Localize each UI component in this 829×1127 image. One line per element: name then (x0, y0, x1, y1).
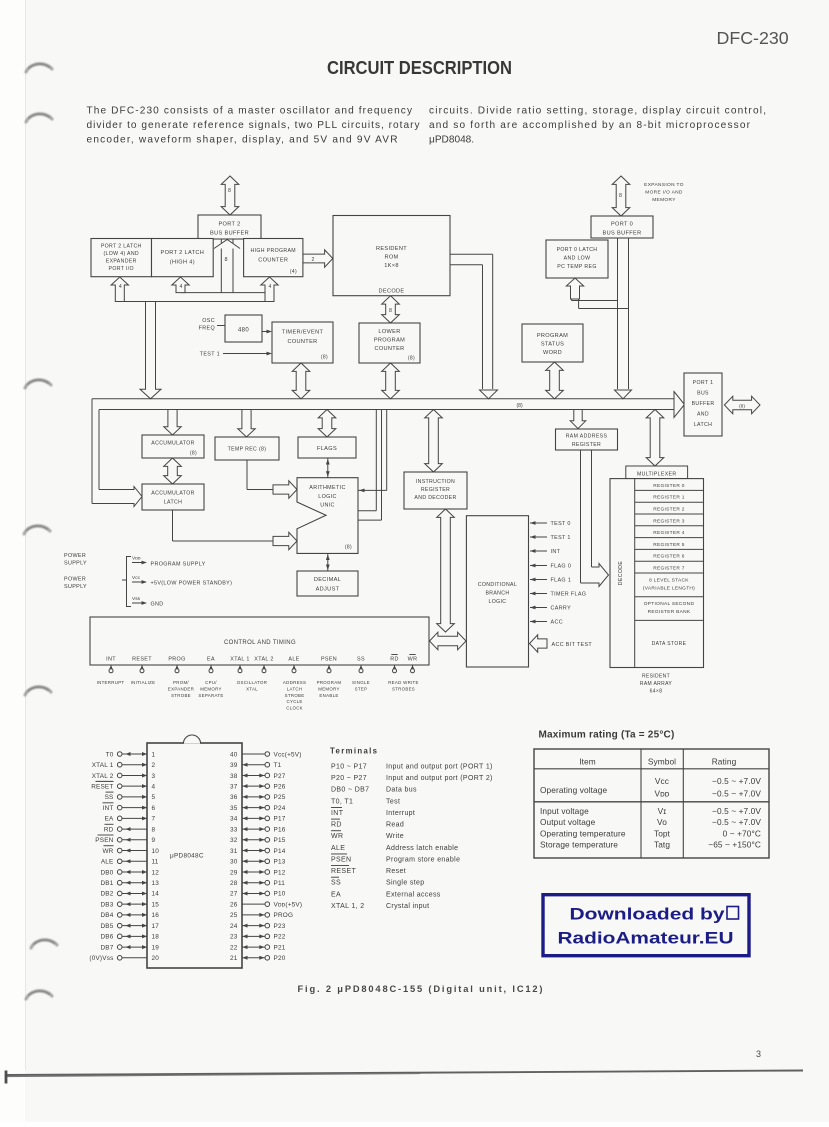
svg-text:and so forth are accomplished: and so forth are accomplished by an 8-bi… (429, 120, 751, 131)
svg-text:(0V)Vss: (0V)Vss (89, 955, 113, 962)
svg-text:P13: P13 (274, 859, 286, 866)
arrow 8 decode to lower program counter (382, 296, 400, 323)
pin 34 P17 (230, 816, 286, 823)
wire osc freq to 480 block (199, 318, 225, 332)
svg-text:P24: P24 (274, 805, 286, 812)
power supply legend (64, 553, 232, 608)
svg-text:INSTRUCTION: INSTRUCTION (416, 479, 455, 485)
pin 16 DB4 (100, 912, 159, 919)
svg-text:RD: RD (104, 826, 114, 833)
block PORT 2 LATCH LOW (91, 239, 152, 277)
svg-text:15: 15 (152, 901, 160, 908)
svg-text:EXPANSION TO: EXPANSION TO (644, 182, 684, 188)
svg-text:PROGRAM: PROGRAM (537, 333, 568, 339)
block PORT 2 BUS BUFFER (198, 215, 261, 239)
block PORT 0 LATCH (546, 240, 608, 278)
svg-text:20: 20 (152, 955, 160, 962)
arrow bus to multiplexer (646, 410, 664, 467)
svg-text:DATA STORE: DATA STORE (652, 641, 687, 647)
block ARITHMETIC LOGIC UNIT (297, 478, 358, 554)
svg-text:CLOCK: CLOCK (286, 706, 303, 711)
pin 39 T1 (230, 762, 282, 769)
wire ALU to decimal adjust (326, 553, 330, 571)
svg-text:P10: P10 (274, 891, 286, 898)
svg-text:INT: INT (551, 549, 561, 555)
svg-text:TEST 1: TEST 1 (200, 352, 220, 358)
svg-text:LATCH: LATCH (164, 500, 182, 506)
wire TEST 1 input (200, 352, 272, 358)
svg-text:P14: P14 (274, 848, 286, 855)
svg-text:21: 21 (230, 955, 238, 962)
svg-text:Operating temperature: Operating temperature (540, 828, 626, 838)
pin 26 Vᴅᴅ(+5V) (230, 901, 302, 908)
svg-text:SUPPLY: SUPPLY (64, 561, 87, 567)
block CONTROL AND TIMING (90, 617, 429, 665)
svg-text:XTAL 1, 2: XTAL 1, 2 (331, 903, 365, 910)
svg-text:9: 9 (152, 837, 156, 844)
svg-text:−65 ~ +150°C: −65 ~ +150°C (708, 840, 761, 850)
svg-text:33: 33 (230, 826, 238, 833)
block RAM ADDRESS REGISTER (556, 429, 618, 450)
svg-text:AND: AND (697, 412, 709, 418)
svg-text:PSEN: PSEN (331, 856, 351, 863)
wire accumulator latch to ALU (173, 510, 274, 541)
svg-text:0 ~ +70°C: 0 ~ +70°C (723, 828, 761, 838)
svg-text:64×8: 64×8 (650, 689, 663, 695)
pin 35 P24 (230, 805, 286, 812)
svg-text:READ WRITE: READ WRITE (388, 680, 419, 685)
svg-text:STROBE: STROBE (285, 693, 305, 698)
svg-text:ACC: ACC (551, 620, 563, 626)
svg-text:The DFC-230 consists of a mast: The DFC-230 consists of a master oscilla… (87, 106, 413, 117)
svg-text:EXPANDER: EXPANDER (168, 686, 194, 691)
terminals table (331, 764, 493, 910)
svg-text:Vcc(+5V): Vcc(+5V) (274, 751, 302, 758)
svg-text:Symbol: Symbol (648, 757, 676, 767)
svg-text:INT: INT (106, 657, 116, 663)
svg-text:MEMORY: MEMORY (200, 686, 221, 691)
svg-text:SEPARATE: SEPARATE (198, 693, 223, 698)
svg-text:Program store enable: Program store enable (386, 856, 460, 863)
svg-text:TEMP REC (8): TEMP REC (8) (228, 447, 267, 453)
svg-text:PC TEMP REG: PC TEMP REG (557, 264, 596, 270)
pin 33 P16 (230, 826, 286, 833)
pin 37 P26 (230, 783, 286, 790)
svg-text:TIMER FLAG: TIMER FLAG (551, 592, 587, 598)
svg-text:REGISTER 5: REGISTER 5 (653, 542, 685, 548)
svg-text:8: 8 (389, 308, 392, 314)
svg-text:CONTROL AND TIMING: CONTROL AND TIMING (224, 640, 296, 646)
svg-text:DB3: DB3 (100, 901, 113, 908)
pin 11 ALE (101, 859, 159, 866)
svg-text:Read: Read (386, 822, 404, 829)
svg-text:PROGRAM: PROGRAM (374, 338, 405, 344)
svg-text:P12: P12 (274, 869, 286, 876)
svg-text:LATCH: LATCH (287, 686, 303, 691)
svg-text:XTAL 1: XTAL 1 (230, 657, 249, 663)
svg-text:RESET: RESET (331, 868, 356, 875)
svg-text:INT: INT (331, 810, 344, 817)
svg-text:Single step: Single step (386, 880, 424, 887)
pin 19 DB7 (100, 944, 159, 951)
svg-text:(8): (8) (739, 404, 745, 410)
wire ALU output to bus (358, 410, 387, 521)
arrow bus into RAM address register (570, 410, 586, 429)
svg-text:SS: SS (331, 880, 341, 887)
svg-text:17: 17 (152, 923, 160, 930)
svg-text:PROGRAM: PROGRAM (317, 680, 342, 685)
svg-text:40: 40 (230, 751, 238, 758)
svg-text:Maximum rating (Ta = 25°C): Maximum rating (Ta = 25°C) (539, 730, 675, 741)
svg-text:OPTIONAL SECOND: OPTIONAL SECOND (644, 601, 695, 607)
svg-text:Input voltage: Input voltage (540, 806, 589, 816)
svg-text:REGISTER: REGISTER (421, 487, 450, 493)
block INSTRUCTION REGISTER (404, 472, 467, 509)
svg-text:RESIDENT: RESIDENT (642, 674, 670, 680)
svg-text:480: 480 (238, 328, 249, 334)
svg-text:(8): (8) (408, 356, 415, 362)
svg-text:SINGLE: SINGLE (352, 680, 370, 685)
svg-text:ADJUST: ADJUST (316, 587, 340, 593)
main data bus (92, 392, 685, 504)
svg-text:WR: WR (331, 833, 343, 840)
pin 38 P27 (230, 773, 286, 780)
svg-text:1K×8: 1K×8 (384, 263, 399, 269)
svg-text:T0, T1: T0, T1 (331, 798, 353, 805)
svg-text:DECIMAL: DECIMAL (314, 577, 341, 583)
svg-text:(VARIABLE LENGTH): (VARIABLE LENGTH) (643, 586, 695, 592)
block TEMP REG (215, 437, 279, 460)
svg-text:ALE: ALE (288, 657, 299, 663)
arrow 4 into high program counter (261, 277, 278, 302)
control and timing pin stems (109, 665, 415, 673)
svg-text:16: 16 (152, 912, 160, 919)
svg-text:PORT 2 LATCH: PORT 2 LATCH (161, 250, 205, 256)
svg-text:PROGRAM SUPPLY: PROGRAM SUPPLY (151, 562, 206, 568)
svg-text:RESET: RESET (91, 783, 113, 790)
svg-text:INT: INT (103, 805, 114, 812)
svg-text:13: 13 (152, 880, 160, 887)
arrow expander lines to bus (140, 302, 161, 399)
svg-text:Vᴅᴅ: Vᴅᴅ (132, 556, 141, 562)
svg-text:PORT 0 LATCH: PORT 0 LATCH (557, 247, 598, 253)
block TIMER EVENT COUNTER (272, 322, 333, 363)
pin 10 WR (102, 846, 159, 855)
svg-text:μPD8048C: μPD8048C (170, 853, 204, 860)
arrow instruction register down (437, 509, 455, 632)
block MULTIPLEXER (626, 466, 688, 479)
svg-text:LOGIC: LOGIC (318, 494, 337, 500)
control and timing pin labels (106, 655, 417, 663)
svg-text:Test: Test (386, 798, 400, 805)
pin 32 P15 (230, 837, 286, 844)
svg-text:39: 39 (230, 762, 238, 769)
svg-text:REGISTER: REGISTER (572, 442, 601, 448)
svg-text:P11: P11 (274, 880, 286, 887)
svg-text:PORT 1: PORT 1 (693, 380, 714, 386)
svg-text:Tatg: Tatg (654, 840, 670, 850)
block PROGRAM STATUS WORD (522, 324, 583, 362)
arrow into ALU lower input (273, 532, 297, 549)
svg-text:DB0: DB0 (100, 869, 113, 876)
svg-text:−0.5 ~ +7.0V: −0.5 ~ +7.0V (712, 806, 761, 816)
svg-text:REGISTER 3: REGISTER 3 (653, 518, 685, 524)
control pin descriptions (97, 680, 419, 711)
svg-text:P17: P17 (274, 816, 286, 823)
svg-text:5: 5 (152, 794, 156, 801)
svg-text:REGISTER 4: REGISTER 4 (653, 530, 685, 536)
svg-text:FREQ: FREQ (199, 326, 215, 332)
block ACCUMULATOR LATCH (142, 484, 204, 510)
svg-text:8: 8 (619, 193, 622, 199)
arrow into ALU upper input (273, 481, 297, 498)
svg-text:ROM: ROM (384, 255, 398, 261)
block PORT 0 BUS BUFFER (591, 216, 653, 238)
svg-text:PSEN: PSEN (321, 657, 337, 663)
svg-text:−0.5 ~ +7.0V: −0.5 ~ +7.0V (712, 789, 761, 799)
svg-text:CARRY: CARRY (551, 606, 572, 612)
svg-text:REGISTER 6: REGISTER 6 (653, 554, 685, 560)
block PORT 1 BUS BUFFER (684, 373, 722, 436)
svg-text:HIGH PROGRAM: HIGH PROGRAM (251, 248, 296, 254)
intro paragraph left column (87, 106, 421, 146)
svg-text:(8): (8) (321, 355, 328, 361)
svg-text:+5V(LOW POWER STANDBY): +5V(LOW POWER STANDBY) (151, 581, 233, 587)
svg-text:OSC: OSC (202, 318, 215, 324)
svg-text:PROG: PROG (168, 657, 185, 663)
svg-text:Input and output port (PORT 1): Input and output port (PORT 1) (386, 764, 493, 771)
bottom page edge (5, 1071, 803, 1084)
svg-text:22: 22 (230, 944, 238, 951)
arrow 2 counter to ROM (303, 250, 333, 267)
pin 24 P23 (230, 923, 286, 930)
svg-text:Address latch enable: Address latch enable (386, 845, 458, 852)
pin 4 RESET (91, 781, 155, 790)
pin 3 XTAL 2 (92, 773, 156, 780)
svg-text:12: 12 (152, 869, 160, 876)
pin 14 DB2 (100, 891, 159, 898)
svg-text:4: 4 (119, 284, 122, 290)
svg-text:(8): (8) (345, 545, 352, 551)
pin 29 P12 (230, 869, 286, 876)
pin 9 PSEN (95, 835, 155, 844)
svg-text:Vcc: Vcc (655, 776, 669, 786)
svg-text:FLAG 0: FLAG 0 (551, 564, 572, 570)
svg-text:REGISTER 0: REGISTER 0 (653, 483, 685, 489)
svg-text:AND LOW: AND LOW (564, 256, 591, 262)
wire port2 bus buffer to latches (120, 239, 270, 302)
block DECIMAL ADJUST (297, 571, 358, 596)
svg-text:DB1: DB1 (100, 880, 113, 887)
svg-text:CYCLE: CYCLE (287, 699, 303, 704)
pin 18 DB6 (100, 934, 159, 941)
wire temp reg to ALU (247, 460, 273, 490)
svg-text:INTERRUPT: INTERRUPT (97, 680, 125, 685)
arrow into port0 latch (566, 278, 583, 299)
pin 25 PROG (230, 912, 293, 919)
svg-text:DB5: DB5 (100, 923, 113, 930)
pin 21 P20 (230, 955, 286, 962)
svg-text:TIMER/EVENT: TIMER/EVENT (282, 330, 324, 336)
pin 7 EA (105, 816, 156, 823)
svg-text:P26: P26 (274, 783, 286, 790)
svg-text:P22: P22 (274, 934, 286, 941)
pin 30 P13 (230, 859, 286, 866)
svg-text:Write: Write (386, 833, 404, 840)
pin 28 P11 (230, 880, 285, 887)
svg-text:DECODE: DECODE (618, 561, 624, 586)
svg-text:encoder, waveform shaper, disp: encoder, waveform shaper, display, and 5… (87, 135, 398, 146)
pin 5 SS (105, 792, 156, 801)
svg-text:18: 18 (152, 934, 160, 941)
label RESIDENT RAM ARRAY 64x8 (640, 674, 673, 695)
svg-text:CIRCUIT DESCRIPTION: CIRCUIT DESCRIPTION (327, 58, 512, 78)
svg-text:24: 24 (230, 923, 238, 930)
svg-text:29: 29 (230, 869, 238, 876)
arrow program status word to bus (546, 362, 564, 399)
pin 20 (0V)Vss (89, 955, 159, 962)
svg-text:(8): (8) (190, 451, 197, 457)
arrow control timing to conditional branch (430, 632, 467, 650)
svg-text:31: 31 (230, 848, 238, 855)
pin 23 P22 (230, 934, 286, 941)
block 480 divider (225, 315, 262, 342)
pin 13 DB1 (100, 880, 159, 887)
pin 17 DB5 (100, 923, 159, 930)
block HIGH PROGRAM COUNTER (244, 239, 303, 277)
svg-text:COUNTER: COUNTER (287, 339, 317, 345)
svg-text:DB7: DB7 (100, 944, 113, 951)
svg-text:PSEN: PSEN (95, 837, 113, 844)
svg-text:WR: WR (408, 657, 418, 663)
svg-text:(8): (8) (517, 403, 523, 409)
svg-text:38: 38 (230, 773, 238, 780)
arrow accumulator to accumulator latch (164, 458, 182, 484)
svg-text:REGISTER 2: REGISTER 2 (653, 507, 685, 513)
svg-text:11: 11 (152, 859, 159, 866)
svg-text:RAM ARRAY: RAM ARRAY (640, 681, 673, 687)
svg-text:ARITHMETIC: ARITHMETIC (309, 485, 345, 491)
svg-text:PROM/: PROM/ (173, 680, 189, 685)
svg-text:P21: P21 (274, 944, 286, 951)
svg-text:MORE I/O AND: MORE I/O AND (645, 190, 683, 196)
svg-text:8: 8 (225, 257, 228, 263)
wire ROM to bus (450, 254, 498, 398)
svg-text:Fig. 2 μPD8048C-155 (Digital: Fig. 2 μPD8048C-155 (Digital unit, IC12) (298, 984, 543, 994)
svg-text:REGISTER 7: REGISTER 7 (653, 566, 685, 572)
block ACCUMULATOR (142, 435, 204, 458)
svg-text:Downloaded by: Downloaded by (570, 906, 726, 924)
svg-text:36: 36 (230, 794, 238, 801)
svg-text:EXPANDER: EXPANDER (106, 259, 137, 265)
svg-text:P15: P15 (274, 837, 286, 844)
svg-text:EA: EA (207, 657, 215, 663)
wire RAM address register to decode (581, 450, 609, 587)
arrow ACC BIT TEST into conditional branch logic (530, 635, 593, 652)
svg-text:RESET: RESET (132, 657, 152, 663)
arrow 4 into port2 latch low (111, 277, 128, 302)
svg-text:PORT 0: PORT 0 (611, 222, 633, 228)
block PORT 2 LATCH HIGH (152, 239, 214, 277)
svg-text:37: 37 (230, 783, 238, 790)
svg-text:INITIALIZE: INITIALIZE (131, 680, 156, 685)
expansion note (644, 182, 684, 203)
pin 31 P14 (230, 848, 286, 855)
svg-text:ALE: ALE (101, 859, 114, 866)
svg-text:MEMORY: MEMORY (652, 197, 676, 203)
svg-text:Vo: Vo (657, 817, 667, 827)
svg-text:BUS BUFFER: BUS BUFFER (210, 231, 249, 237)
svg-text:14: 14 (152, 891, 160, 898)
svg-text:−0.5 ~ +7.0V: −0.5 ~ +7.0V (712, 817, 761, 827)
svg-text:P27: P27 (274, 773, 286, 780)
pin 8 RD (104, 824, 156, 833)
arrow bus into temp reg (238, 410, 255, 438)
block RESIDENT RAM ARRAY (610, 479, 704, 668)
svg-text:(4): (4) (290, 269, 297, 275)
svg-text:ALE: ALE (331, 845, 345, 852)
svg-text:27: 27 (230, 891, 238, 898)
svg-text:FLAGS: FLAGS (317, 446, 337, 452)
svg-text:DFC-230: DFC-230 (717, 28, 789, 48)
svg-text:P10 ~ P17: P10 ~ P17 (331, 764, 367, 771)
svg-text:T1: T1 (274, 762, 282, 769)
svg-text:STATUS: STATUS (541, 342, 564, 348)
svg-text:TEST 0: TEST 0 (551, 521, 571, 527)
svg-text:34: 34 (230, 816, 238, 823)
svg-text:T0: T0 (106, 751, 114, 758)
maximum rating table (534, 749, 769, 858)
svg-text:External access: External access (386, 891, 441, 898)
arrow 8 above port0 bus buffer (612, 176, 630, 216)
svg-text:Vɪ: Vɪ (658, 806, 667, 816)
svg-text:SS: SS (105, 794, 114, 801)
intro paragraph right column (429, 106, 766, 146)
svg-text:Vᴅᴅ(+5V): Vᴅᴅ(+5V) (274, 901, 303, 908)
svg-text:7: 7 (152, 816, 156, 823)
svg-text:8 LEVEL STACK: 8 LEVEL STACK (649, 578, 689, 584)
svg-text:XTAL 2: XTAL 2 (254, 657, 273, 663)
svg-text:Interrupt: Interrupt (386, 810, 415, 817)
svg-text:POWER: POWER (64, 553, 86, 559)
svg-text:P20: P20 (274, 955, 286, 962)
pin 22 P21 (230, 944, 286, 951)
svg-text:P20 ~ P27: P20 ~ P27 (331, 775, 367, 782)
svg-text:3: 3 (756, 1049, 761, 1059)
svg-text:26: 26 (230, 901, 238, 908)
svg-text:MEMORY: MEMORY (318, 686, 339, 691)
svg-text:COUNTER: COUNTER (258, 258, 288, 264)
wire flags to ALU (326, 458, 330, 478)
svg-text:(LOW 4) AND: (LOW 4) AND (103, 251, 139, 257)
svg-text:−0.5 ~ +7.0V: −0.5 ~ +7.0V (712, 776, 761, 786)
svg-text:28: 28 (230, 880, 238, 887)
svg-text:4: 4 (180, 284, 183, 290)
svg-text:AND DECODER: AND DECODER (414, 495, 456, 501)
svg-text:RD: RD (390, 657, 399, 663)
svg-text:2: 2 (152, 762, 156, 769)
svg-text:Reset: Reset (386, 868, 406, 875)
RadioAmateur.EU stamp (543, 895, 749, 956)
svg-text:4: 4 (269, 284, 272, 290)
svg-text:CPU/: CPU/ (205, 680, 217, 685)
pin 27 P10 (230, 891, 286, 898)
svg-text:MULTIPLEXER: MULTIPLEXER (637, 471, 677, 477)
svg-text:BRANCH: BRANCH (485, 591, 509, 597)
svg-text:PROG: PROG (274, 912, 294, 919)
svg-text:PORT 2 LATCH: PORT 2 LATCH (101, 244, 142, 250)
svg-text:DB6: DB6 (100, 934, 113, 941)
